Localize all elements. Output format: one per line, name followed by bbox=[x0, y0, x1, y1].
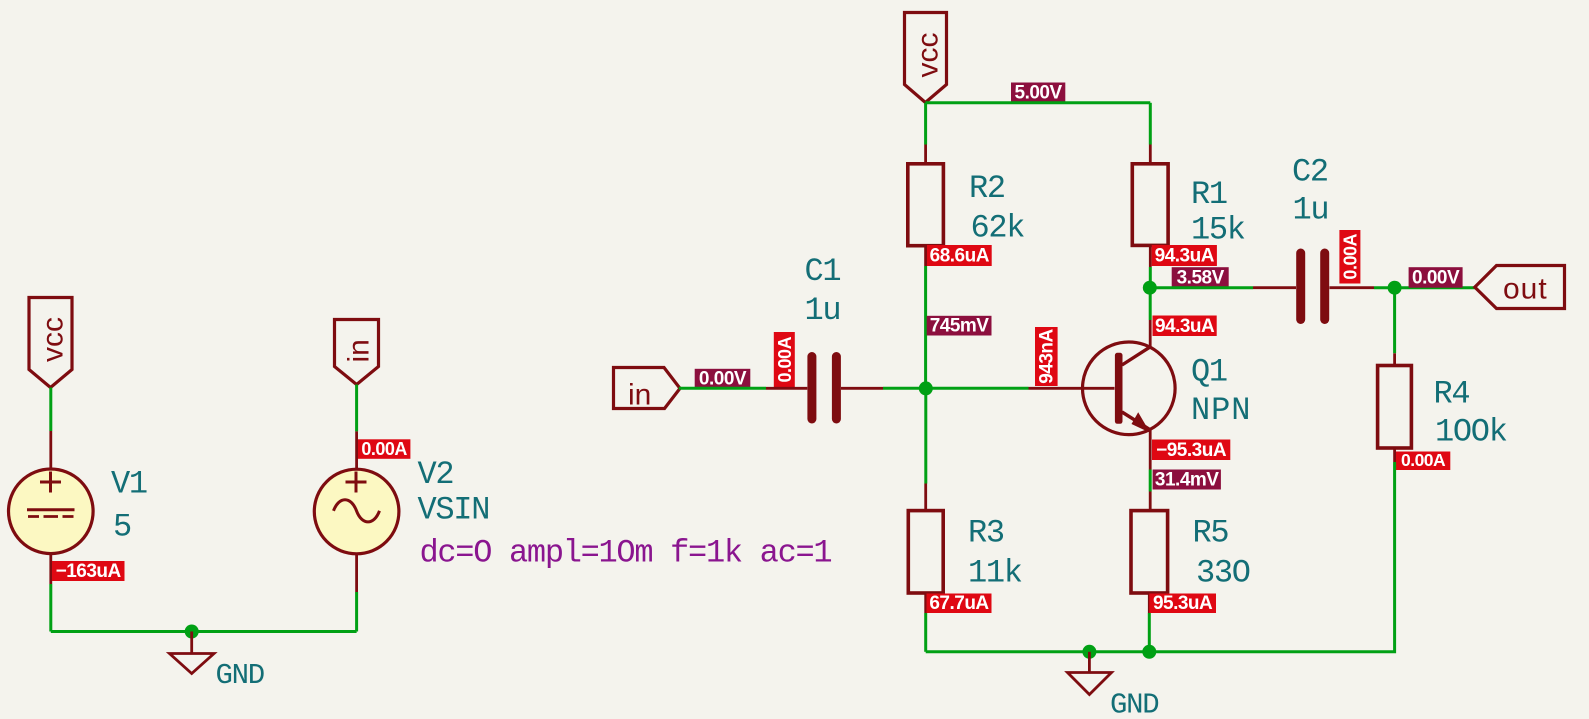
current label 0.00A at C2 (vertical) bbox=[1339, 230, 1360, 284]
voltage label 0.00V at in bbox=[695, 369, 751, 390]
wire C2 to out junction bbox=[1374, 286, 1395, 289]
svg-text:0.00V: 0.00V bbox=[1412, 268, 1460, 289]
svg-text:1u: 1u bbox=[1293, 192, 1329, 229]
wire R4 to gnd rail bbox=[926, 462, 1395, 652]
current label 94.3uA at collector bbox=[1153, 316, 1217, 337]
junction left rail bbox=[185, 625, 199, 639]
svg-text:15k: 15k bbox=[1191, 212, 1245, 249]
current label 68.6uA below R2 bbox=[927, 245, 992, 267]
current label 943nA at base (vertical) bbox=[1035, 327, 1058, 386]
voltage source V1 bbox=[9, 431, 94, 584]
ground symbol GND (right) bbox=[1068, 652, 1112, 695]
voltage source V2 bbox=[314, 431, 399, 592]
svg-text:3.58V: 3.58V bbox=[1177, 268, 1225, 289]
svg-text:−163uA: −163uA bbox=[56, 561, 122, 582]
svg-text:V2: V2 bbox=[418, 456, 454, 493]
current label 0.00A below R4 bbox=[1396, 450, 1450, 470]
svg-text:33O: 33O bbox=[1196, 555, 1250, 592]
svg-text:R4: R4 bbox=[1434, 376, 1470, 413]
svg-text:V1: V1 bbox=[111, 466, 147, 503]
current label -163uA at V1 bbox=[52, 561, 125, 582]
svg-text:R1: R1 bbox=[1191, 176, 1227, 213]
global label in (above V2) bbox=[335, 320, 379, 385]
svg-text:R5: R5 bbox=[1193, 515, 1229, 552]
svg-text:dc=O ampl=1Om f=1k ac=1: dc=O ampl=1Om f=1k ac=1 bbox=[420, 535, 832, 572]
svg-text:0.00V: 0.00V bbox=[699, 369, 747, 390]
svg-text:943nA: 943nA bbox=[1037, 328, 1058, 383]
resistor R5 bbox=[1131, 492, 1168, 614]
wire R1 to C2 junction bbox=[1149, 267, 1152, 288]
wire junction to C2 bbox=[1150, 286, 1253, 289]
wire rail to R1 bbox=[1149, 103, 1152, 145]
svg-text:R2: R2 bbox=[969, 170, 1005, 207]
svg-text:0.00A: 0.00A bbox=[1401, 450, 1446, 470]
wire vcc top rail bbox=[925, 101, 1150, 104]
power flag vcc (left, above V1) bbox=[29, 298, 72, 388]
svg-text:C2: C2 bbox=[1292, 154, 1328, 191]
resistor R4 bbox=[1378, 353, 1412, 462]
svg-text:94.3uA: 94.3uA bbox=[1155, 246, 1215, 267]
svg-text:VSIN: VSIN bbox=[418, 492, 490, 529]
svg-text:R3: R3 bbox=[968, 515, 1004, 552]
wire vcc to V1 bbox=[49, 388, 52, 432]
resistor R1 bbox=[1132, 145, 1168, 268]
svg-text:1u: 1u bbox=[805, 292, 841, 329]
current label 0.00A at V2 bbox=[358, 439, 411, 459]
svg-text:in: in bbox=[343, 339, 376, 362]
wire R3 to gnd rail bbox=[924, 613, 927, 652]
power flag vcc (top) bbox=[905, 13, 947, 103]
wire R5 to gnd rail bbox=[1148, 613, 1151, 652]
voltage label 31.4mV at emitter bbox=[1153, 469, 1221, 490]
wire V1 to gnd rail bbox=[49, 584, 52, 632]
svg-text:11k: 11k bbox=[968, 555, 1022, 592]
current label -95.3uA at emitter bbox=[1152, 440, 1230, 461]
svg-text:5: 5 bbox=[113, 509, 131, 546]
svg-text:62k: 62k bbox=[971, 210, 1025, 247]
svg-text:GND: GND bbox=[1110, 689, 1158, 719]
svg-text:vcc: vcc bbox=[37, 317, 70, 362]
svg-text:NPN: NPN bbox=[1191, 392, 1251, 429]
resistor R3 bbox=[908, 484, 943, 614]
svg-text:1OOk: 1OOk bbox=[1435, 414, 1507, 451]
junction gnd rail bbox=[1082, 645, 1096, 659]
svg-text:67.7uA: 67.7uA bbox=[929, 593, 989, 614]
voltage label 745mV bbox=[927, 315, 992, 336]
svg-text:745mV: 745mV bbox=[930, 315, 990, 336]
transistor Q1 bbox=[1029, 320, 1176, 470]
junction R5 rail bbox=[1142, 645, 1156, 659]
wire V2 to gnd rail bbox=[355, 592, 358, 632]
wire in-flag to V2 bbox=[355, 385, 358, 432]
capacitor C1 bbox=[766, 357, 883, 420]
voltage label 5.00V on vcc rail bbox=[1011, 83, 1065, 104]
svg-text:0.00A: 0.00A bbox=[361, 439, 407, 459]
current label 95.3uA below R5 bbox=[1149, 593, 1216, 614]
wire C1 to junction bbox=[883, 387, 926, 390]
wire emitter to R5 bbox=[1149, 470, 1152, 492]
capacitor C2 bbox=[1253, 253, 1374, 320]
svg-text:vcc: vcc bbox=[912, 33, 945, 78]
svg-text:in: in bbox=[628, 379, 651, 412]
current label 94.3uA below R1 bbox=[1152, 245, 1217, 267]
wire rail to R2 bbox=[924, 103, 927, 145]
wire junction to out port bbox=[1395, 286, 1475, 289]
svg-text:31.4mV: 31.4mV bbox=[1155, 469, 1219, 490]
wire in port to C1 bbox=[679, 387, 766, 390]
svg-text:5.00V: 5.00V bbox=[1015, 83, 1063, 104]
current label 67.7uA below R3 bbox=[927, 593, 992, 614]
svg-text:68.6uA: 68.6uA bbox=[930, 246, 990, 267]
wire left gnd rail bbox=[51, 630, 357, 633]
svg-text:Q1: Q1 bbox=[1191, 354, 1227, 391]
wire R2 to C1 junction bbox=[924, 266, 927, 388]
ground symbol GND (left) bbox=[170, 632, 215, 674]
svg-text:94.3uA: 94.3uA bbox=[1155, 316, 1215, 337]
svg-text:95.3uA: 95.3uA bbox=[1153, 593, 1213, 614]
wire junction to Q1 base bbox=[926, 387, 1029, 390]
svg-text:−95.3uA: −95.3uA bbox=[1156, 440, 1227, 461]
junction R1/C2/collector bbox=[1143, 281, 1157, 295]
svg-text:0.00A: 0.00A bbox=[1340, 234, 1360, 280]
voltage label 3.58V bbox=[1172, 267, 1229, 288]
svg-text:out: out bbox=[1503, 273, 1548, 306]
junction out node bbox=[1388, 281, 1402, 295]
svg-text:C1: C1 bbox=[805, 253, 841, 290]
wire junction to R3 bbox=[924, 388, 927, 483]
svg-text:GND: GND bbox=[216, 659, 264, 692]
voltage label 0.00V at out bbox=[1409, 267, 1463, 288]
junction C1/R2/R3/base bbox=[919, 381, 933, 395]
svg-text:0.00A: 0.00A bbox=[775, 336, 795, 382]
global label in (at C1) bbox=[614, 368, 681, 412]
wire out junction to R4 bbox=[1393, 288, 1396, 354]
wire collector to junction bbox=[1149, 288, 1152, 320]
global label out bbox=[1475, 266, 1565, 309]
current label 0.00A at C1 (vertical) bbox=[774, 332, 795, 387]
resistor R2 bbox=[908, 145, 944, 267]
